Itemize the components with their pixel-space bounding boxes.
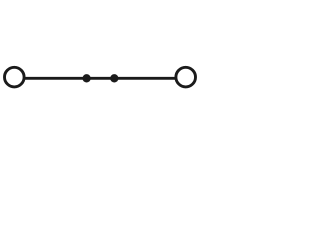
junction dot 1 xyxy=(82,74,90,82)
right terminal circle xyxy=(176,67,196,87)
junction dot 2 xyxy=(110,74,118,82)
left terminal circle xyxy=(5,67,25,87)
wire xyxy=(24,77,176,80)
